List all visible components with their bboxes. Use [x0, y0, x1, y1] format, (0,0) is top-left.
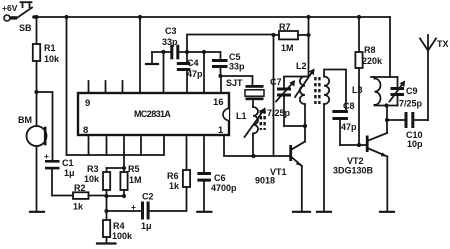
resistor R6	[183, 137, 190, 187]
svg-text:+: +	[131, 202, 136, 212]
svg-text:SB: SB	[19, 23, 32, 33]
svg-text:33p: 33p	[229, 62, 245, 72]
capacitor C9 trimmer 7/25p	[390, 77, 405, 106]
pin 15 wire up to C5 node	[203, 52, 205, 93]
pin 4 stub	[140, 137, 142, 155]
svg-text:L1: L1	[236, 111, 247, 121]
svg-text:C7: C7	[270, 77, 282, 87]
svg-text:R6: R6	[167, 171, 179, 181]
node R7 right	[306, 33, 310, 37]
svg-text:R7: R7	[279, 22, 291, 32]
ground (microphone)	[30, 211, 44, 213]
svg-text:47p: 47p	[341, 122, 357, 132]
svg-text:+: +	[44, 151, 49, 161]
wire riser to VT2 collector	[386, 106, 388, 134]
svg-text:C2: C2	[142, 192, 154, 202]
wire C8 to VT2 base	[340, 144, 366, 146]
svg-text:C3: C3	[165, 26, 177, 36]
IC U1 MC2831A body	[78, 93, 229, 135]
wire C3 node riser to R7	[187, 35, 274, 53]
capacitor C6 4700p	[197, 137, 211, 211]
wire tank bottom	[375, 105, 398, 107]
+6V supply terminal	[4, 15, 17, 21]
resistor R1	[33, 17, 40, 92]
svg-text:BM: BM	[18, 115, 32, 125]
node rail-Vcc	[64, 15, 68, 19]
pin 10 stub	[105, 81, 107, 93]
svg-text:10k: 10k	[84, 174, 100, 184]
pin 16 wire up to SJT node	[220, 76, 222, 93]
wire L2 secondary bottom to ground	[323, 104, 325, 211]
svg-text:MC2831A: MC2831A	[134, 109, 171, 119]
wire L2 primary bottom to VT1 collector	[304, 104, 306, 141]
inductor L1 (adjustable)	[245, 107, 265, 156]
capacitor C10 10p	[405, 112, 429, 128]
pin 8 stub	[88, 137, 90, 155]
svg-text:9018: 9018	[255, 176, 275, 186]
microphone BM	[27, 92, 47, 211]
svg-text:R8: R8	[364, 45, 376, 55]
wire SJT node to crystal	[221, 76, 253, 85]
svg-text:L2: L2	[296, 61, 307, 71]
svg-text:TX: TX	[437, 39, 449, 49]
svg-text:1: 1	[218, 125, 224, 136]
svg-text:C1: C1	[62, 158, 74, 168]
svg-text:L3: L3	[352, 85, 363, 95]
svg-text:C4: C4	[187, 58, 199, 68]
transistor VT1 9018	[289, 142, 305, 212]
antenna TX	[420, 35, 436, 120]
node pin16-SJT	[218, 74, 222, 78]
svg-text:R5: R5	[128, 164, 140, 174]
svg-text:9: 9	[85, 98, 90, 109]
capacitor C2 (electrolytic 1u)	[141, 202, 150, 220]
svg-text:VT2: VT2	[347, 156, 364, 166]
wire C2 node to C2	[107, 210, 142, 212]
wire tap to C10	[387, 119, 405, 121]
node C10 tap	[385, 118, 389, 122]
node collector riser	[303, 124, 307, 128]
svg-text:R1: R1	[44, 43, 56, 53]
svg-text:1k: 1k	[73, 202, 84, 212]
wire R3/R5 tops	[107, 167, 125, 169]
node rail-pin12	[138, 15, 142, 19]
svg-text:1μ: 1μ	[64, 168, 75, 178]
pin 12 wire to +6V rail	[139, 17, 141, 93]
node tank bottom riser	[384, 103, 388, 107]
node R1-mic junction	[34, 90, 38, 94]
wire C7 bottom to VT1 collector riser	[284, 125, 305, 127]
wire L2 secondary top to C8	[324, 70, 346, 111]
node C3-pin13	[161, 50, 165, 54]
pin 9 stub	[88, 81, 90, 93]
resistor R3	[103, 168, 110, 196]
wire C3 to C5 lead	[179, 51, 220, 53]
ground (L2 secondary)	[317, 211, 331, 213]
svg-text:1k: 1k	[169, 181, 180, 191]
svg-text:47p: 47p	[187, 69, 203, 79]
svg-text:R2: R2	[74, 183, 86, 193]
svg-text:C8: C8	[343, 101, 355, 111]
svg-text:8: 8	[83, 125, 88, 136]
wire Vcc branch from rail to IC lower pins	[67, 17, 165, 155]
svg-text:3DG130B: 3DG130B	[333, 166, 374, 176]
svg-text:R4: R4	[113, 221, 125, 231]
svg-text:10k: 10k	[44, 54, 60, 64]
svg-text:1M: 1M	[129, 175, 142, 185]
node rail-L2	[306, 15, 310, 19]
node pin15	[202, 50, 206, 54]
wire R3 node down to C2 node	[106, 196, 108, 211]
wire tank top	[371, 76, 398, 78]
ground (R4)	[97, 242, 116, 244]
wire rail corner down to tank	[389, 17, 391, 77]
switch SB	[18, 2, 36, 19]
node rail-R8	[357, 15, 361, 19]
pin 11 stub	[122, 81, 124, 93]
pin 6 wire to R3/R5	[123, 137, 125, 168]
svg-text:100k: 100k	[112, 231, 133, 241]
node pin6-R5	[122, 166, 126, 170]
resistor R4	[103, 211, 110, 243]
wire C1 to R2	[52, 195, 73, 197]
capacitor C1 (electrolytic 1u)	[45, 160, 60, 195]
pin 7 stub	[106, 137, 108, 155]
ground (VT1 emitter)	[293, 211, 310, 213]
node C2 junction	[104, 209, 108, 213]
wire R7 node down to VT1 base	[273, 35, 275, 156]
node rail-R1	[34, 15, 38, 19]
transformer L2 with core	[295, 17, 329, 104]
crystal SJT	[245, 85, 264, 107]
svg-text:C9: C9	[406, 86, 418, 96]
node L1 bottom	[251, 154, 255, 158]
wire pin 1 to VT1 base	[224, 137, 290, 156]
svg-text:16: 16	[213, 97, 224, 108]
svg-text:220k: 220k	[362, 56, 383, 66]
wire R2 to R3 node	[89, 195, 108, 197]
svg-text:SJT: SJT	[226, 78, 243, 88]
svg-text:C6: C6	[214, 173, 226, 183]
wire top +6V rail	[35, 16, 390, 18]
svg-text:R3: R3	[87, 164, 99, 174]
svg-text:33p: 33p	[162, 37, 178, 47]
capacitor C3 33p	[170, 45, 179, 60]
svg-text:4700p: 4700p	[211, 183, 237, 193]
resistor R2	[73, 192, 89, 199]
node R3-R2	[104, 194, 108, 198]
node R7 left	[271, 33, 275, 37]
svg-text:7/25p: 7/25p	[399, 99, 423, 109]
ground (VT2 emitter)	[380, 211, 394, 213]
svg-text:10p: 10p	[407, 139, 423, 149]
svg-text:1μ: 1μ	[141, 221, 152, 231]
wire C2 to R6	[150, 187, 187, 211]
node R8-base	[357, 143, 361, 147]
svg-text:+6V: +6V	[2, 3, 18, 13]
wire mic node to C1	[37, 92, 53, 160]
node R5 bottom	[122, 194, 126, 198]
svg-text:1M: 1M	[281, 43, 294, 53]
capacitor C7 trimmer 7/25p	[276, 77, 309, 127]
inductor L3	[375, 77, 381, 105]
resistor R5	[120, 168, 127, 196]
svg-text:C5: C5	[229, 52, 241, 62]
capacitor C5 33p	[212, 52, 228, 76]
pin 13 wire up to C3 node	[163, 52, 165, 93]
transistor VT2 3DG130B	[366, 133, 388, 211]
wire ground to C3	[152, 51, 171, 53]
svg-text:7/25p: 7/25p	[267, 108, 291, 118]
wire R3/R5 bottoms	[107, 195, 125, 197]
capacitor C8 47p	[332, 110, 348, 145]
resistor R7	[274, 31, 309, 39]
ground (C3 node)	[146, 52, 158, 64]
capacitor C4 47p	[177, 52, 191, 71]
pin 14 wire up to C4	[186, 71, 188, 93]
node C4 top	[185, 50, 189, 54]
resistor R8	[355, 17, 362, 145]
ground (C6)	[197, 211, 211, 213]
